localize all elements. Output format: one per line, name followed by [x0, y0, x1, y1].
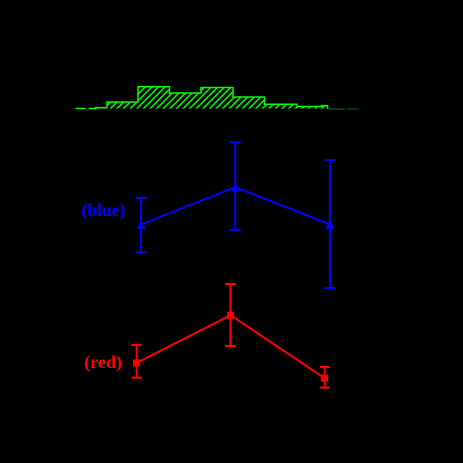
blue error bar 3 [324, 160, 335, 288]
red error bar 3 [320, 367, 330, 388]
histogram H1 outline [76, 87, 328, 109]
blue triangle markers [136, 220, 145, 229]
blue error bar 1 [136, 198, 147, 253]
red error bar 2 [225, 284, 236, 346]
blue graph connecting lines [141, 187, 330, 224]
svg-text:(blue): (blue) [81, 200, 125, 220]
svg-text:(red): (red) [84, 352, 122, 373]
dim baseline dashes right of histogram [328, 108, 346, 110]
red error bar 1 [131, 345, 142, 378]
histogram H1 hatched fill [76, 87, 328, 109]
blue error bar 2 [230, 142, 241, 230]
gap in leftmost baseline segment [86, 106, 89, 110]
red square markers [133, 359, 140, 366]
red graph connecting lines [137, 315, 325, 378]
